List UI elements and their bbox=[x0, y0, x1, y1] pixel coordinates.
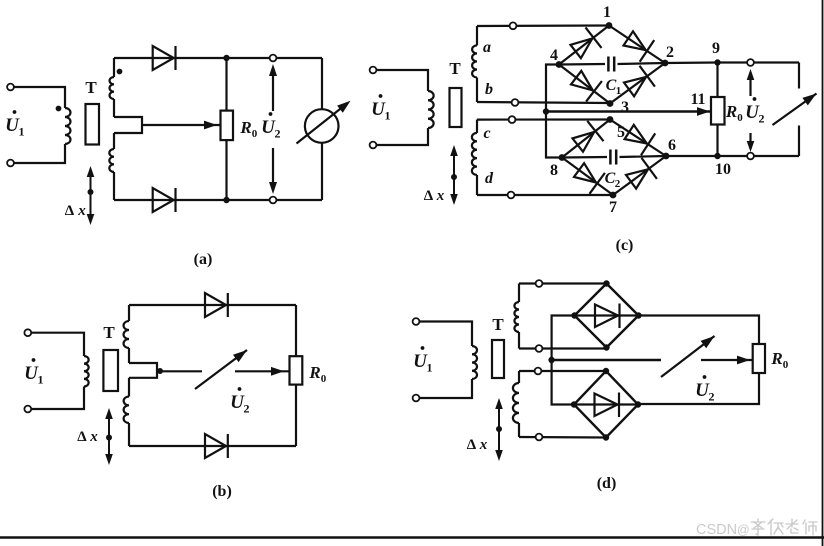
tap junction dot (b) bbox=[157, 368, 163, 374]
svg-text:0: 0 bbox=[737, 112, 743, 124]
diode D2 (b) bbox=[205, 434, 226, 458]
wire (d) primary top lead bbox=[419, 322, 472, 347]
circuit (c) primary terminal bottom bbox=[370, 142, 377, 149]
terminal d (c) bbox=[508, 192, 515, 199]
secondary lower winding (a) bbox=[113, 133, 115, 149]
bottom border line bbox=[0, 536, 824, 538]
terminal (d) upper bottom bbox=[536, 345, 543, 352]
wire top loop (d) bbox=[639, 316, 760, 345]
center tap (b) bbox=[129, 363, 157, 378]
resistor R0 (d) bbox=[753, 344, 765, 373]
wiper arrow (a) bbox=[142, 124, 220, 126]
transformer core T (a) bbox=[86, 104, 100, 145]
wire (c) primary top lead bbox=[376, 70, 428, 91]
bridge2 diode 8-5 (c) bbox=[562, 120, 610, 158]
svg-text:2: 2 bbox=[666, 44, 674, 61]
node 2 dot (c) bbox=[662, 60, 669, 67]
primary winding (a) bbox=[65, 108, 70, 144]
terminal (d) upper top bbox=[536, 280, 543, 287]
svg-text:0: 0 bbox=[783, 359, 789, 371]
variable arrow (b) bbox=[195, 350, 247, 389]
displacement arrow dx (a) bbox=[90, 170, 92, 221]
svg-text:10: 10 bbox=[715, 161, 731, 178]
secondary lower winding (b) bbox=[128, 378, 130, 397]
node 4 dot (c) bbox=[556, 61, 563, 68]
wire (a) bottom rail bbox=[114, 199, 322, 201]
wire (b) right bottom bbox=[295, 385, 297, 446]
upper bridge bottom dot (d) bbox=[603, 344, 609, 350]
node 3 dot (c) bbox=[607, 100, 614, 107]
svg-text:T: T bbox=[85, 78, 97, 97]
svg-text:1: 1 bbox=[385, 109, 391, 123]
left rail (d) bbox=[552, 316, 575, 405]
lower bridge left dot (d) bbox=[571, 401, 577, 407]
svg-text:2: 2 bbox=[615, 178, 621, 190]
primary winding (c) bbox=[428, 91, 434, 128]
U2 arrow up (c) bbox=[749, 72, 751, 96]
displacement arrow dx (c) bbox=[453, 149, 455, 201]
secondary winding a-b (c) bbox=[476, 26, 478, 45]
svg-text:1: 1 bbox=[38, 373, 44, 387]
svg-text:9: 9 bbox=[712, 40, 720, 57]
node 1 dot (c) bbox=[606, 22, 613, 29]
svg-text:1: 1 bbox=[427, 361, 433, 375]
svg-text:2: 2 bbox=[275, 127, 281, 141]
transformer core T (c) bbox=[450, 88, 462, 127]
terminal c (c) bbox=[509, 116, 516, 123]
bridge2 diode 7-6 (c) bbox=[613, 156, 666, 195]
svg-text:1: 1 bbox=[19, 125, 25, 139]
svg-text:6: 6 bbox=[668, 137, 676, 154]
wire node6 to node10 (c) bbox=[666, 155, 718, 157]
circuit (a) primary terminal bottom bbox=[7, 160, 14, 167]
svg-text:2: 2 bbox=[759, 112, 765, 126]
resistor R0 wire top (c) bbox=[716, 63, 718, 98]
transformer core T (d) bbox=[492, 340, 504, 378]
U2 arrow up (a) bbox=[272, 68, 274, 111]
svg-text:Δ: Δ bbox=[65, 203, 75, 219]
svg-text:4: 4 bbox=[550, 47, 558, 64]
bridge1 horizontal wire (c) bbox=[559, 63, 605, 66]
output terminal (a) top bbox=[270, 55, 277, 62]
wire (b) right top bbox=[295, 305, 297, 356]
svg-text:c: c bbox=[483, 125, 490, 142]
junction dot (a) top bbox=[223, 55, 229, 61]
svg-text:a: a bbox=[483, 39, 491, 56]
svg-text:(a): (a) bbox=[194, 251, 213, 268]
svg-text:Δ: Δ bbox=[467, 437, 477, 453]
svg-text:(c): (c) bbox=[616, 237, 634, 254]
wire (b) bottom rail bbox=[129, 445, 296, 447]
circuit (c) primary terminal top bbox=[370, 67, 377, 74]
capacitor C1 (c) bbox=[607, 57, 610, 72]
rail 4-8 (c) bbox=[546, 65, 562, 158]
node 9 dot (c) bbox=[714, 59, 720, 65]
switch wire lower (c) bbox=[798, 126, 800, 157]
output arrow segment (d) bbox=[701, 359, 753, 361]
svg-text:@: @ bbox=[737, 523, 750, 537]
upper bridge diode (d) bbox=[575, 314, 639, 316]
junction dot rail (c) bbox=[543, 108, 549, 114]
svg-text:x: x bbox=[436, 188, 445, 204]
wire (c) lead a bbox=[477, 24, 608, 27]
bridge2 diode 5-6 (c) bbox=[610, 120, 666, 157]
node 5 dot (c) bbox=[607, 116, 614, 123]
junction dot (a) bottom bbox=[223, 197, 229, 203]
resistor R0 wire bottom (c) bbox=[716, 125, 718, 157]
wire (a) R0 branch top bbox=[225, 58, 227, 111]
svg-text:R: R bbox=[308, 363, 320, 382]
wiper wire segment (b) bbox=[160, 370, 202, 372]
output terminal top (c) bbox=[747, 59, 754, 66]
svg-text:(d): (d) bbox=[597, 475, 617, 492]
circuit (a) primary terminal top bbox=[7, 84, 14, 91]
circuit (d) primary terminal bottom bbox=[413, 395, 420, 402]
bridge2 diode 8-7 (c) bbox=[562, 158, 613, 196]
secondary upper winding (d) bbox=[518, 284, 520, 303]
svg-text:b: b bbox=[485, 81, 493, 98]
switch arrow (c) bbox=[773, 94, 817, 126]
wire 9 to output (c) bbox=[718, 61, 800, 63]
galvanometer (a) bbox=[305, 109, 339, 143]
node 10 dot (c) bbox=[714, 153, 720, 159]
wire (d) primary bottom lead bbox=[419, 379, 472, 398]
primary winding (d) bbox=[472, 346, 477, 379]
svg-text:3: 3 bbox=[621, 99, 629, 116]
svg-text:R: R bbox=[725, 102, 737, 121]
svg-text:x: x bbox=[77, 203, 86, 219]
svg-text:2: 2 bbox=[244, 402, 250, 416]
svg-text:8: 8 bbox=[550, 162, 558, 179]
diode D1 (b) bbox=[205, 293, 226, 317]
secondary winding c-d (c) bbox=[476, 120, 478, 133]
terminal b (c) bbox=[512, 99, 519, 106]
node 7 dot (c) bbox=[610, 192, 617, 199]
svg-text:Δ: Δ bbox=[77, 429, 87, 445]
center tap (a) bbox=[114, 117, 142, 133]
wire (c) lead d bbox=[477, 194, 613, 196]
wire (d) lower winding top lead bbox=[519, 370, 606, 372]
U2 arrow down (c) bbox=[749, 133, 751, 149]
bridge1 diode 1-2 (c) bbox=[609, 26, 665, 64]
displacement arrow dx (b) bbox=[108, 412, 110, 461]
lower bridge diamond (d) bbox=[574, 371, 638, 438]
upper bridge left dot (d) bbox=[571, 312, 577, 318]
upper bridge top dot (d) bbox=[603, 280, 609, 286]
secondary upper winding (a) bbox=[113, 58, 115, 77]
output terminal bottom (c) bbox=[747, 153, 754, 160]
svg-text:R: R bbox=[770, 349, 782, 368]
transformer core T (b) bbox=[103, 350, 118, 391]
svg-text:7: 7 bbox=[609, 199, 617, 216]
bridge1 diode 4-1 (c) bbox=[559, 26, 609, 65]
wire (b) primary top lead bbox=[31, 333, 84, 356]
svg-text:0: 0 bbox=[252, 128, 258, 140]
bridge1 diode 4-3 (c) bbox=[559, 65, 610, 104]
wire (b) primary bottom lead bbox=[31, 387, 84, 410]
capacitor C2 (c) bbox=[609, 150, 612, 165]
svg-text:d: d bbox=[485, 170, 494, 187]
diode D2 (a) bbox=[153, 188, 174, 212]
circuit (b) primary terminal top bbox=[24, 329, 31, 336]
polarity dot (a) primary bbox=[56, 106, 62, 112]
upper bridge diamond (d) bbox=[575, 284, 639, 348]
bridge2 horizontal wire (c) bbox=[562, 156, 607, 159]
rail junction dot (d) bbox=[548, 357, 554, 363]
variable arrow (d) bbox=[661, 336, 715, 377]
wire (a) top rail bbox=[114, 57, 322, 59]
wire (c) lead b bbox=[477, 102, 610, 103]
resistor R0 (c) bbox=[711, 97, 725, 125]
output wire 11 (c) bbox=[546, 110, 711, 113]
wire (c) primary bottom lead bbox=[376, 128, 428, 145]
bridge1 diode 3-2 (c) bbox=[610, 63, 665, 104]
svg-text:(b): (b) bbox=[212, 483, 232, 500]
svg-text:T: T bbox=[103, 323, 115, 342]
wire (a) primary top lead bbox=[14, 87, 65, 108]
node 8 dot (c) bbox=[559, 154, 566, 161]
diode D1 (a) bbox=[153, 46, 174, 70]
wire (a) meter branch top bbox=[321, 58, 323, 109]
wire (c) lead c bbox=[477, 118, 610, 120]
primary winding (b) bbox=[84, 356, 89, 387]
terminal (d) lower top bbox=[535, 368, 542, 375]
wire bottom loop (d) bbox=[638, 373, 759, 404]
wire (d) upper winding bottom lead bbox=[519, 347, 607, 349]
wire (d) upper winding top lead bbox=[519, 282, 607, 284]
polarity dot (a) secondary bbox=[117, 69, 123, 75]
secondary upper winding (b) bbox=[128, 305, 130, 321]
svg-text:2: 2 bbox=[709, 390, 715, 404]
svg-text:T: T bbox=[449, 59, 461, 78]
lower bridge diode (d) bbox=[574, 403, 638, 405]
output terminal (a) bottom bbox=[270, 197, 277, 204]
displacement arrow dx (d) bbox=[498, 402, 500, 457]
lower bridge right dot (d) bbox=[635, 401, 641, 407]
wiper arrow segment (b) bbox=[235, 370, 290, 372]
terminal a (c) bbox=[510, 22, 517, 29]
galvanometer arrow (a) bbox=[297, 104, 348, 144]
wire (a) meter branch bottom bbox=[321, 143, 323, 200]
svg-text:1: 1 bbox=[616, 85, 622, 97]
svg-text:0: 0 bbox=[321, 373, 327, 385]
circuit (d) primary terminal top bbox=[413, 318, 420, 325]
wire 10 to output (c) bbox=[718, 155, 800, 157]
terminal (d) lower bottom bbox=[536, 434, 543, 441]
upper bridge right dot (d) bbox=[635, 312, 641, 318]
circuit (b) primary terminal bottom bbox=[24, 406, 31, 413]
svg-text:11: 11 bbox=[690, 91, 705, 108]
right border line bbox=[822, 0, 824, 546]
svg-text:5: 5 bbox=[617, 124, 625, 141]
svg-text:Δ: Δ bbox=[424, 188, 434, 204]
wire node2 to node9 (c) bbox=[665, 61, 718, 64]
svg-text:x: x bbox=[479, 437, 488, 453]
wire (b) top rail bbox=[129, 304, 296, 306]
lower bridge bottom dot (d) bbox=[603, 434, 609, 440]
svg-text:1: 1 bbox=[603, 4, 611, 21]
svg-text:x: x bbox=[89, 429, 98, 445]
switch wire upper (c) bbox=[798, 63, 800, 89]
resistor R0 (b) bbox=[290, 356, 303, 384]
lower bridge top dot (d) bbox=[603, 368, 609, 374]
svg-text:T: T bbox=[492, 315, 504, 334]
U2 arrow down (a) bbox=[272, 148, 274, 190]
svg-text:R: R bbox=[239, 118, 251, 137]
svg-text:CSDN: CSDN bbox=[696, 522, 737, 538]
secondary lower winding (d) bbox=[518, 371, 520, 383]
wire (d) lower winding bottom lead bbox=[519, 436, 606, 439]
output wire segment (d) bbox=[552, 359, 661, 361]
resistor R0 (a) bbox=[221, 111, 234, 141]
wire (a) primary bottom lead bbox=[14, 144, 65, 163]
wire (a) R0 branch bottom bbox=[225, 140, 227, 200]
node 6 dot (c) bbox=[663, 153, 670, 160]
